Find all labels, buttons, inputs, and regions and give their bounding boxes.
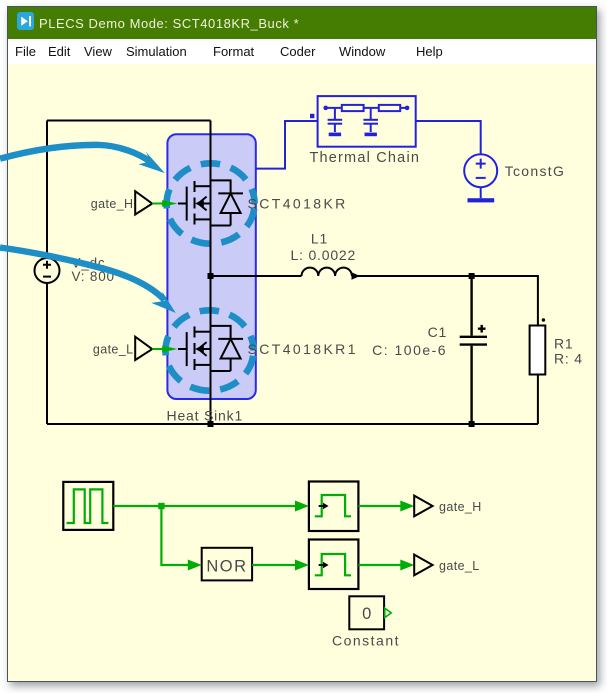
- svg-text:gate_H: gate_H: [91, 197, 134, 211]
- annotation arrow upper: [0, 145, 150, 162]
- R1 bottom lead: [537, 375, 539, 425]
- Q2 channel segments: [194, 327, 196, 371]
- port constant output: [385, 608, 391, 617]
- inductor L1: [211, 268, 472, 276]
- V_dc minus sign: [43, 276, 51, 278]
- Q1 body arrow line: [198, 203, 211, 205]
- D1 triangle: [221, 193, 241, 213]
- TconstG circle body: [464, 154, 497, 187]
- delay block 2: [309, 540, 359, 590]
- arrowhead into delay block 1: [295, 501, 309, 512]
- D2 cathode bar: [218, 338, 243, 340]
- Q1 body arrow barbs: [198, 197, 206, 211]
- svg-text:R1: R1: [554, 335, 574, 351]
- svg-text:Heat Sink1: Heat Sink1: [167, 407, 243, 423]
- arrowhead into gate_L port: [400, 560, 414, 571]
- Q1 gate lead: [178, 203, 187, 205]
- wire pulse to delay1: [113, 505, 300, 507]
- delay block 1 arrow tip: [323, 503, 329, 509]
- Q1 channel segments: [194, 181, 196, 225]
- Q2 body arrow tip: [197, 346, 203, 351]
- thermal resistor Rth1: [342, 105, 364, 111]
- wire node to R1 top: [472, 276, 538, 326]
- delay block 1 arrow line: [319, 505, 324, 507]
- voltage source V_dc: [35, 258, 60, 283]
- wire top rail: [47, 120, 211, 122]
- node signal junction: [158, 503, 164, 509]
- wire delay1 to gate_H port: [358, 505, 407, 507]
- svg-text:C: 100e-6: C: 100e-6: [372, 342, 447, 358]
- delay block 1 step waveform: [315, 495, 351, 516]
- annotation dashed circle (lower MOSFET): [166, 310, 254, 390]
- logic gate NOR: [202, 548, 252, 581]
- svg-text:L1: L1: [311, 230, 328, 246]
- svg-text:0: 0: [362, 605, 371, 623]
- wire thermal chain to TconstG (blue): [416, 121, 481, 154]
- node source-rail junction: [208, 421, 214, 427]
- MOSFET Q1 SCT4018KR: [178, 180, 243, 225]
- menu bar: [8, 39, 596, 64]
- node ladder left terminal: [323, 106, 328, 111]
- Q1 gate bar: [186, 187, 188, 221]
- constant block: [349, 596, 384, 629]
- thermal capacitor Cth1 lead: [334, 108, 336, 119]
- input port gate_H: [135, 191, 152, 214]
- L1 coil: [302, 268, 352, 276]
- svg-text:gate_L: gate_L: [93, 343, 134, 357]
- Q2 source stub: [195, 364, 211, 366]
- node output junction bottom: [469, 421, 475, 427]
- wire NOR to delay2: [252, 564, 300, 566]
- svg-text:NOR: NOR: [206, 557, 247, 575]
- body diode D1: [211, 180, 231, 193]
- TconstG plus sign: [476, 159, 486, 169]
- svg-text:gate_L: gate_L: [439, 559, 480, 573]
- Cth1 ground lead: [334, 124, 336, 132]
- title bar: [8, 7, 596, 39]
- svg-text:Thermal Chain: Thermal Chain: [309, 150, 420, 166]
- R1 polarity dot: [542, 318, 545, 321]
- wire L1 to output node: [352, 275, 472, 277]
- C1 bottom plate: [460, 343, 487, 345]
- wire center leg (drain/source chain): [210, 121, 212, 425]
- annotation arrow lower: [0, 248, 165, 301]
- Q2 gate bar: [186, 332, 188, 366]
- svg-text:R: 4: R: 4: [554, 350, 583, 366]
- V_dc plus sign: [43, 261, 51, 269]
- Cth1 bottom plate: [328, 123, 343, 125]
- C1 top lead: [470, 276, 472, 336]
- svg-text:V: 800: V: 800: [72, 269, 115, 284]
- Q2 drain stub: [195, 331, 211, 333]
- svg-text:TconstG: TconstG: [505, 163, 565, 179]
- svg-text:gate_H: gate_H: [439, 500, 482, 514]
- V_dc circle body: [35, 258, 60, 283]
- ground Cth1 bar: [329, 133, 341, 137]
- input port gate_L: [135, 337, 152, 360]
- TconstG minus sign: [476, 177, 486, 179]
- delay block 1 box: [309, 482, 359, 532]
- annotation dashed circle (upper MOSFET): [167, 163, 255, 243]
- wire bottom rail: [47, 423, 538, 425]
- output port gate_L: [414, 555, 432, 576]
- Q2 body arrow barbs: [198, 342, 206, 356]
- Q1 drain stub: [195, 185, 211, 187]
- thermal capacitor Cth2 lead: [370, 108, 372, 119]
- arrowhead into delay block 2: [295, 560, 309, 571]
- node output junction top: [469, 273, 475, 279]
- D1 bottom stub: [211, 225, 231, 227]
- TconstG ground lead: [480, 187, 482, 198]
- Cth1 top plate: [328, 119, 343, 121]
- node ladder right terminal: [405, 106, 410, 111]
- capacitor C1: [460, 276, 487, 424]
- delay block 2 step waveform: [315, 554, 351, 575]
- R1 body: [530, 326, 546, 375]
- wire node to L1: [211, 275, 302, 277]
- wire heat sink to thermal chain (blue): [256, 121, 318, 169]
- pulse generator: [63, 482, 113, 530]
- arrowhead gate_H wire: [162, 200, 177, 207]
- delay block 2 box: [309, 540, 359, 590]
- PLECS app icon: [17, 12, 34, 30]
- svg-text:L: 0.0022: L: 0.0022: [291, 247, 357, 263]
- arrowhead gate_L wire: [162, 346, 177, 353]
- wire left rail lower: [46, 283, 48, 424]
- Q1 body arrow tip: [197, 201, 203, 206]
- thermal ladder rail: [326, 107, 407, 109]
- Cth2 bottom plate: [363, 123, 378, 125]
- wire left rail upper: [46, 121, 48, 259]
- svg-text:C1: C1: [428, 324, 448, 340]
- C1 bottom lead: [470, 346, 472, 424]
- node midpoint junction: [208, 273, 214, 279]
- D2 anode lead: [230, 359, 232, 372]
- wire delay2 to gate_L port: [358, 564, 407, 566]
- Thermal Chain box: [318, 96, 416, 147]
- svg-text:SCT4018KR: SCT4018KR: [248, 195, 348, 211]
- D2 bottom stub: [211, 370, 231, 372]
- source TconstG: [464, 154, 497, 198]
- window title: [39, 7, 299, 39]
- Cth2 top plate: [363, 119, 378, 121]
- thermal resistor Rth2: [379, 105, 400, 111]
- svg-text:Constant: Constant: [332, 632, 400, 648]
- ground Cth2 bar: [365, 133, 377, 137]
- C1 top plate: [460, 336, 487, 338]
- D1 cathode bar: [218, 192, 243, 194]
- Q2 gate lead: [178, 348, 187, 350]
- D2 triangle: [221, 339, 241, 359]
- Q2 body arrow line: [198, 348, 211, 350]
- arrowhead into NOR: [188, 560, 202, 571]
- delay block 2 arrow line: [319, 564, 324, 566]
- subsystem Thermal Chain: [318, 96, 416, 147]
- L1 current direction arrow: [352, 272, 361, 279]
- MOSFET Q2 SCT4018KR1: [178, 326, 243, 371]
- pulse generator waveform: [67, 489, 109, 523]
- wire junction to NOR: [161, 506, 193, 565]
- ground thermal: [468, 198, 495, 202]
- delay block 2 arrow tip: [323, 562, 329, 568]
- node thermal port dot: [310, 114, 314, 118]
- Cth2 ground lead: [370, 124, 372, 132]
- delay block 1: [309, 482, 359, 532]
- wire gate_L signal: [152, 348, 164, 350]
- resistor R1: [472, 276, 546, 424]
- wire gate_H signal: [152, 203, 164, 205]
- D1 anode lead: [230, 213, 232, 226]
- heat sink HS1 body: [167, 134, 255, 399]
- output port gate_H: [414, 496, 432, 517]
- body diode D2: [211, 326, 231, 339]
- arrowhead into gate_H port: [400, 501, 414, 512]
- Q1 source stub: [195, 218, 211, 220]
- svg-text:SCT4018KR1: SCT4018KR1: [248, 341, 358, 357]
- pulse generator box: [63, 482, 113, 530]
- C1 polarity plus: [478, 325, 486, 333]
